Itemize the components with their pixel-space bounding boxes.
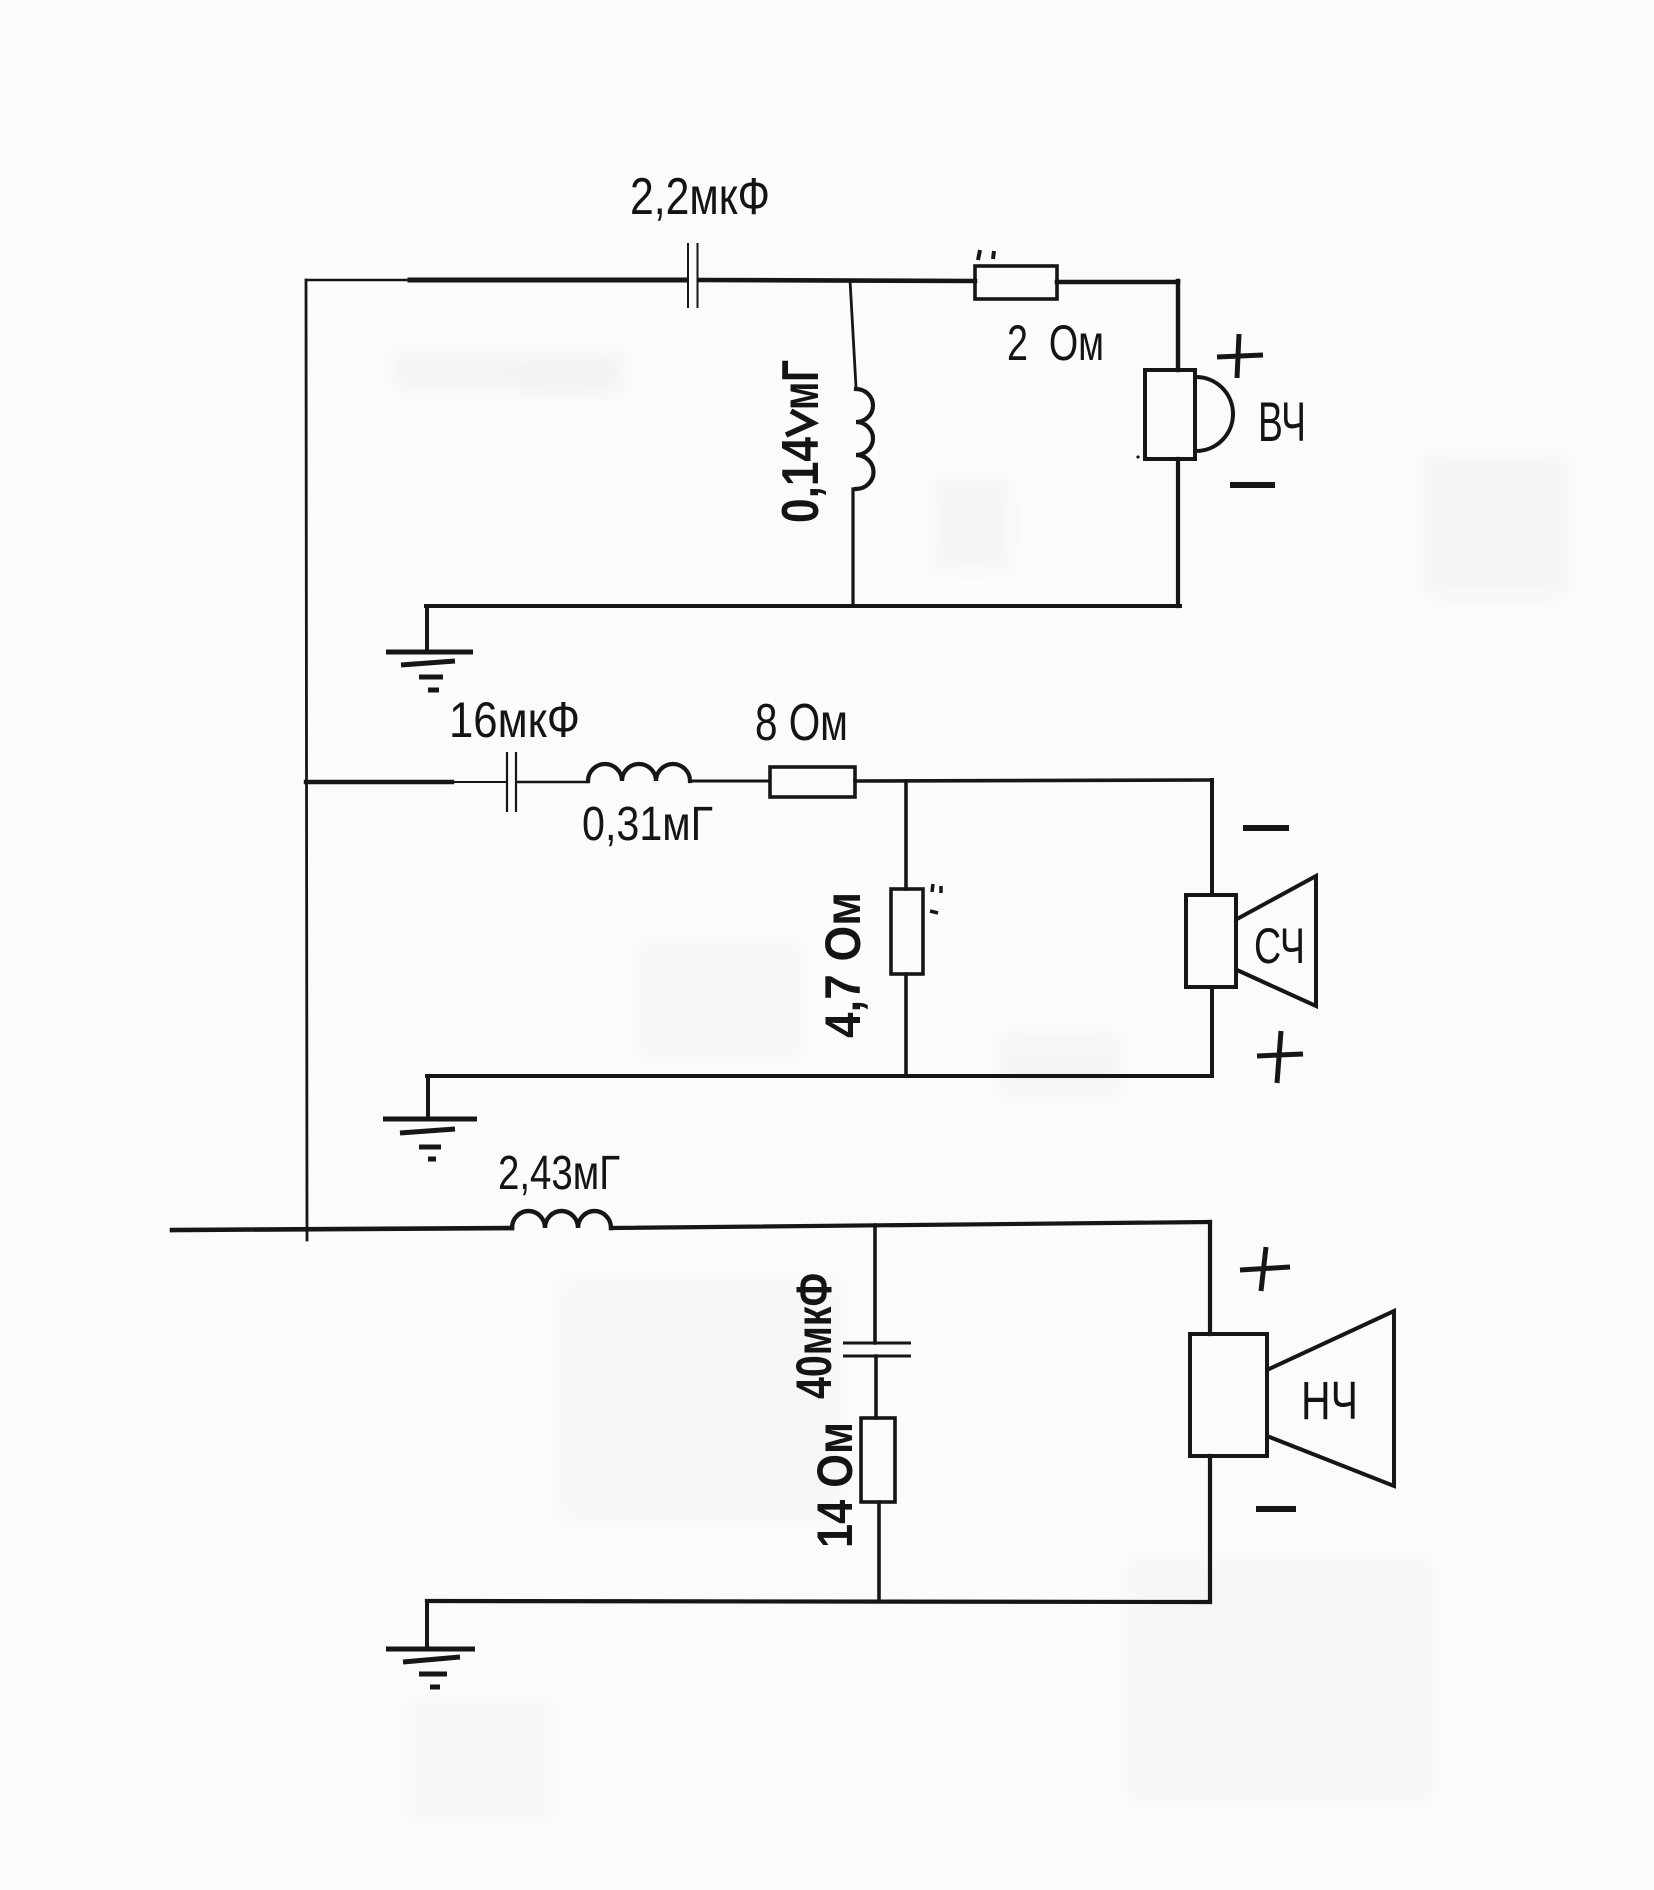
svg-text:0,31мГ: 0,31мГ: [582, 798, 713, 851]
svg-text:8 Ом: 8 Ом: [755, 694, 848, 752]
svg-text:2,2мкФ: 2,2мкФ: [630, 168, 770, 226]
svg-text:ВЧ: ВЧ: [1258, 390, 1306, 453]
svg-text:4,7 Ом: 4,7 Ом: [815, 892, 871, 1038]
svg-text:НЧ: НЧ: [1301, 1371, 1358, 1431]
svg-text:16мкФ: 16мкФ: [449, 692, 580, 748]
svg-text:40мкФ: 40мкФ: [786, 1273, 842, 1399]
svg-text:мГ: мГ: [772, 360, 830, 410]
svg-text:2 Ом: 2 Ом: [1007, 315, 1104, 371]
svg-text:2,43мГ: 2,43мГ: [498, 1147, 620, 1200]
svg-text:0,14: 0,14: [772, 437, 830, 523]
svg-text:СЧ: СЧ: [1254, 918, 1305, 974]
svg-text:14 Ом: 14 Ом: [807, 1422, 863, 1548]
